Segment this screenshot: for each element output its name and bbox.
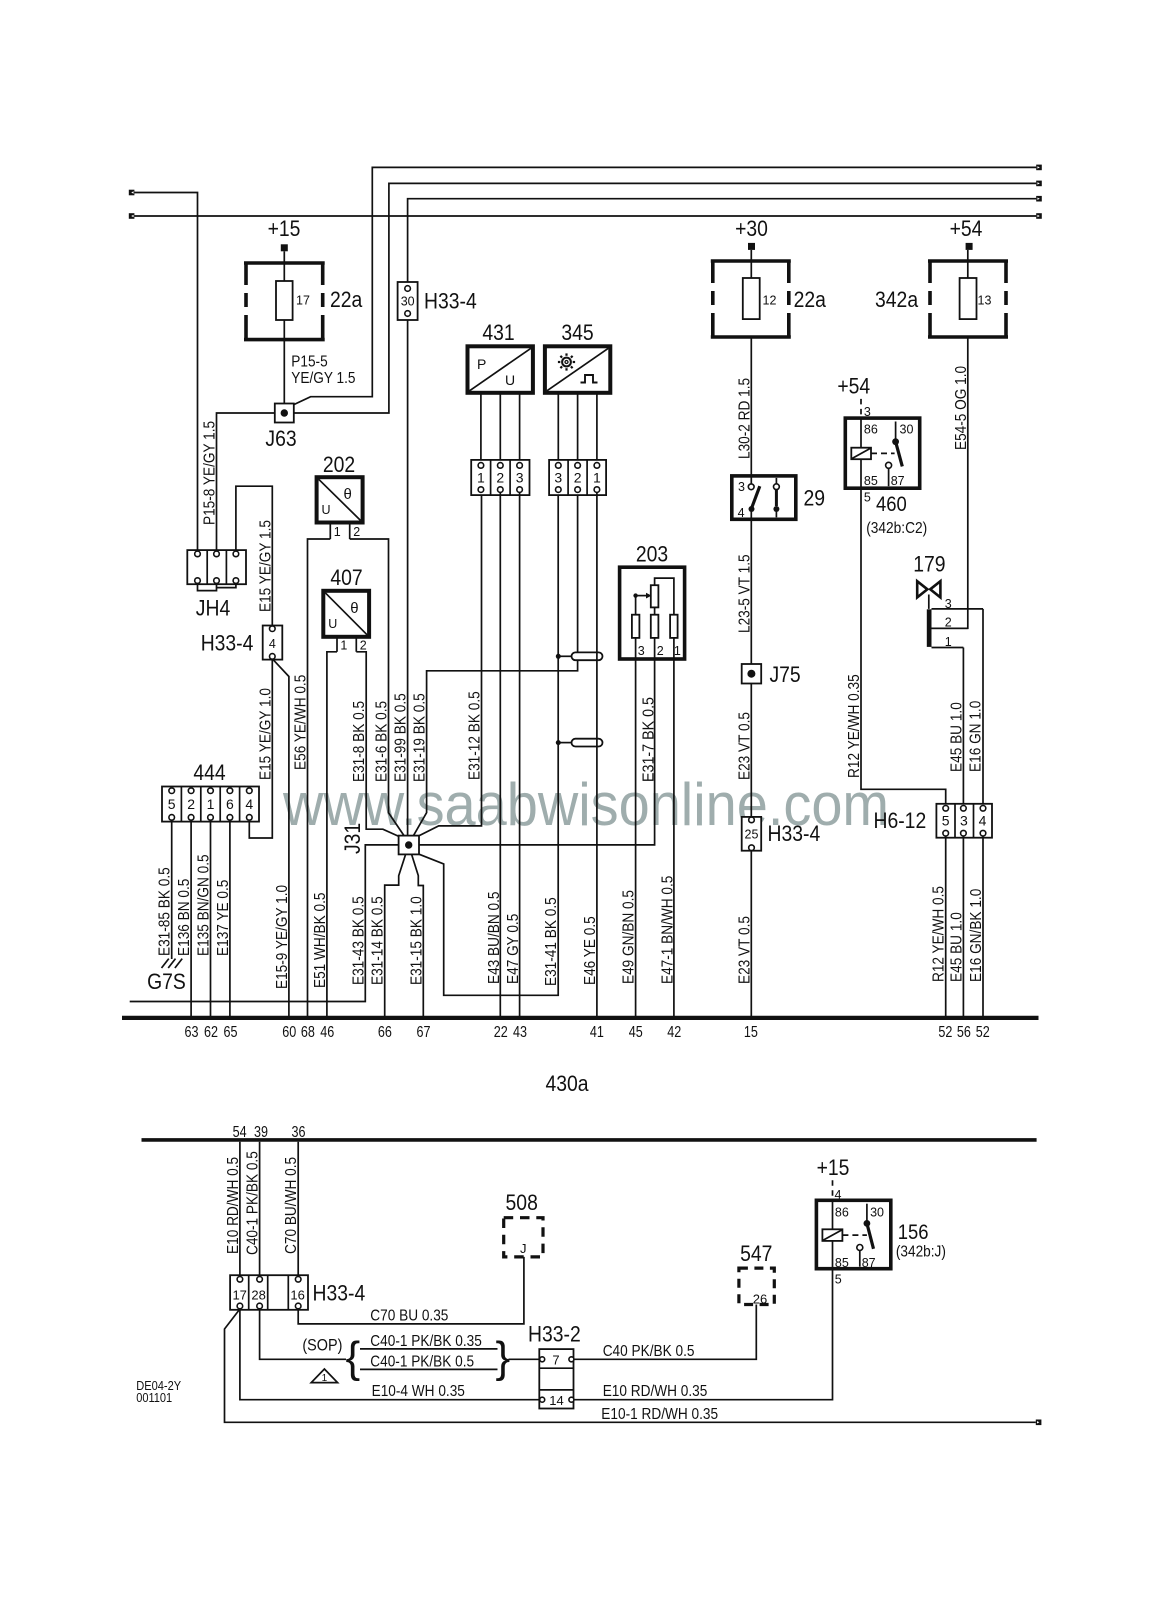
svg-text:43: 43	[513, 1024, 527, 1041]
junction J63	[275, 404, 294, 423]
svg-text:E46 YE 0.5: E46 YE 0.5	[582, 916, 599, 985]
switch 29	[732, 476, 796, 520]
svg-text:17: 17	[232, 1288, 246, 1303]
svg-text:H6-12: H6-12	[874, 808, 927, 833]
wire R12 H6-12 pin5 to bus 52	[945, 836, 947, 1016]
svg-text:J63: J63	[265, 426, 296, 451]
svg-text:}: }	[496, 1333, 511, 1382]
wire +15 to relay 22a	[283, 251, 285, 281]
wire E56 202 pin1 to bus 68	[308, 539, 331, 1016]
svg-text:J: J	[520, 1241, 527, 1256]
wire: line y=198.7 to H33-4 pin30	[408, 199, 1037, 286]
svg-text:45: 45	[629, 1024, 643, 1041]
svg-text:1: 1	[334, 525, 341, 539]
svg-text:E31-15 BK 1.0: E31-15 BK 1.0	[408, 896, 425, 985]
svg-text:547: 547	[740, 1241, 772, 1266]
svg-text:5: 5	[942, 813, 950, 829]
terminal square right 1	[1036, 165, 1042, 171]
svg-text:U: U	[505, 372, 515, 388]
wire E43 431 pin2 to bus 22	[499, 492, 501, 1016]
svg-text:+15: +15	[817, 1155, 850, 1180]
wire P15-5 relay to J63	[283, 320, 285, 404]
svg-text:65: 65	[224, 1024, 238, 1041]
relay 156	[816, 1200, 890, 1270]
wire E31-6 202 pin2 to J31	[350, 539, 404, 836]
wire E23 H33-4 pin25 to bus 15	[750, 851, 752, 1016]
bus2 tick numbers	[233, 1124, 306, 1141]
svg-text:E31-19 BK 0.5: E31-19 BK 0.5	[412, 693, 429, 782]
wire L30-2 relay to switch 29	[750, 337, 752, 476]
svg-text:E31-8 BK 0.5: E31-8 BK 0.5	[351, 701, 368, 782]
svg-text:508: 508	[506, 1190, 538, 1215]
svg-text:2: 2	[360, 639, 367, 653]
svg-text:52: 52	[938, 1024, 952, 1041]
svg-text:14: 14	[549, 1393, 563, 1408]
svg-text:1: 1	[340, 639, 347, 653]
345 wires to connector	[557, 393, 559, 463]
valve 179	[917, 581, 940, 609]
svg-text:H33-2: H33-2	[528, 1322, 581, 1347]
svg-text:E15 YE/GY 1.5: E15 YE/GY 1.5	[257, 520, 274, 612]
ground G7S	[162, 959, 183, 968]
svg-text:54: 54	[233, 1124, 247, 1141]
svg-text:R12 YE/WH 0.35: R12 YE/WH 0.35	[846, 674, 863, 778]
svg-text:3: 3	[960, 813, 968, 829]
terminal square left 2	[129, 213, 135, 219]
svg-text:E31-12 BK 0.5: E31-12 BK 0.5	[467, 691, 484, 780]
svg-text:1: 1	[593, 470, 601, 486]
wire E47 431 pin3 to bus 43	[519, 492, 521, 1016]
connector H33-4 bottom	[230, 1275, 308, 1310]
wire: line y=183.4 from J63 right	[294, 183, 1036, 413]
wire E46 345 pin1 to bus 41	[596, 492, 598, 1016]
svg-text:5: 5	[168, 796, 176, 812]
wire E10 bus 54 to H33-4 pin17	[239, 1142, 241, 1277]
svg-text:39: 39	[254, 1124, 268, 1141]
wire E10 H33-2 pin14 to relay 156	[574, 1269, 833, 1400]
svg-text:13: 13	[978, 294, 992, 308]
svg-text:(342b:J): (342b:J)	[896, 1244, 946, 1261]
svg-text:E31-6 BK 0.5: E31-6 BK 0.5	[374, 701, 391, 782]
connector 508 dashed	[504, 1218, 543, 1257]
svg-text:P: P	[477, 356, 486, 372]
svg-text:407: 407	[330, 565, 362, 590]
wire: line y=167.4 from J63 riser	[294, 167, 1036, 404]
wire E16 GN 179 pin3 to H6-12 pin4	[982, 609, 984, 806]
svg-text:E10 RD/WH 0.5: E10 RD/WH 0.5	[225, 1157, 242, 1254]
svg-text:431: 431	[482, 320, 514, 345]
svg-text:430a: 430a	[545, 1071, 589, 1096]
svg-text:P15-8 YE/GY 1.5: P15-8 YE/GY 1.5	[202, 421, 219, 525]
wire E54-5 relay 342a to valve 179 pin2	[932, 337, 968, 628]
wire E15 bridge JH4 pin3 to H33-4 pin4	[236, 486, 272, 626]
svg-text:H33-4: H33-4	[768, 821, 821, 846]
svg-text:22: 22	[494, 1024, 508, 1041]
wire: full-width line y=216	[134, 215, 1036, 217]
179 connector bar	[927, 597, 983, 649]
svg-text:C70 BU/WH 0.5: C70 BU/WH 0.5	[283, 1157, 300, 1254]
wire 444 pin5 to ground	[171, 820, 173, 959]
sensor 431	[468, 346, 533, 393]
bus bar 430a	[122, 1016, 1039, 1020]
svg-text:E16 GN 1.0: E16 GN 1.0	[968, 700, 985, 772]
wire C40-1 bus 39 to H33-4 pin28	[259, 1142, 261, 1277]
svg-text:C40-1 PK/BK 0.5: C40-1 PK/BK 0.5	[370, 1353, 474, 1370]
svg-text:E137 YE 0.5: E137 YE 0.5	[215, 880, 232, 956]
svg-text:86: 86	[835, 1206, 849, 1220]
svg-text:H33-4: H33-4	[424, 289, 477, 314]
wire E31-15 J31 to bus 67	[412, 854, 424, 1016]
svg-text:4: 4	[738, 506, 745, 520]
svg-text:1: 1	[322, 1373, 328, 1384]
svg-text:12: 12	[763, 294, 777, 308]
svg-text:(342b:C2): (342b:C2)	[866, 520, 927, 537]
svg-text:4: 4	[245, 796, 253, 812]
svg-text:26: 26	[753, 1292, 767, 1307]
svg-text:30: 30	[900, 423, 914, 437]
407 pin stubs	[336, 637, 338, 652]
wire E51 407 pin1 to bus 46	[327, 652, 337, 1016]
wire E31-41 J31 to 345 pin3	[419, 492, 558, 995]
svg-text:22a: 22a	[794, 287, 827, 312]
connector H33-4 pin 4	[263, 626, 283, 660]
svg-text:3: 3	[738, 480, 745, 494]
svg-text:2: 2	[496, 470, 504, 486]
wire E16 H6-12 pin4 to bus 52b	[982, 836, 984, 1016]
svg-text:E49 GN/BN 0.5: E49 GN/BN 0.5	[621, 890, 638, 984]
wire: left line y=192.5 to JH4 pin1	[134, 193, 197, 552]
svg-text:60: 60	[282, 1024, 296, 1041]
svg-text:L30-2 RD 1.5: L30-2 RD 1.5	[736, 378, 753, 459]
wire C40 H33-2 pin7 to 547	[574, 1305, 756, 1360]
svg-text:+30: +30	[735, 216, 768, 241]
connector H33-4 pin 30	[398, 282, 418, 320]
sensor 345	[545, 346, 610, 393]
wire E23 J75 to H33-4 pin25	[750, 684, 752, 818]
svg-text:6: 6	[226, 796, 234, 812]
svg-text:E31-7 BK 0.5: E31-7 BK 0.5	[641, 697, 658, 782]
svg-text:(SOP): (SOP)	[302, 1336, 342, 1355]
svg-text:E31-85 BK 0.5: E31-85 BK 0.5	[157, 867, 174, 956]
wire E49 203 pin3 to bus 45	[635, 659, 637, 1016]
svg-text:7: 7	[552, 1353, 559, 1368]
wire E31-12 431 pin1 to J31	[419, 492, 482, 836]
svg-text:85: 85	[835, 1256, 849, 1270]
svg-text:342a: 342a	[875, 287, 919, 312]
wire E31-7 203 pin2 to J31	[419, 659, 655, 845]
svg-text:J75: J75	[770, 662, 801, 687]
wire C70 bus 36 to H33-4 pin16	[297, 1142, 299, 1277]
svg-text:E47 GY 0.5: E47 GY 0.5	[505, 914, 522, 984]
svg-text:3: 3	[945, 597, 952, 611]
svg-text:46: 46	[320, 1024, 334, 1041]
wire E47-1 203 pin1 to bus 42	[673, 659, 675, 1016]
svg-text:3: 3	[638, 644, 645, 658]
svg-text:E45 BU 1.0: E45 BU 1.0	[949, 912, 966, 982]
JH4 bottom links	[198, 583, 217, 590]
connector H33-4 pin 25	[742, 817, 762, 851]
bus bar 2	[142, 1138, 1037, 1142]
svg-text:θ: θ	[350, 600, 358, 617]
svg-text:E45 BU 1.0: E45 BU 1.0	[948, 702, 965, 772]
relay 22a fuse 12	[711, 261, 791, 337]
svg-text:30: 30	[870, 1206, 884, 1220]
svg-text:66: 66	[378, 1024, 392, 1041]
svg-text:68: 68	[301, 1024, 315, 1041]
connector 547 dashed	[739, 1268, 774, 1304]
svg-text:E56 YE/WH 0.5: E56 YE/WH 0.5	[293, 675, 310, 770]
svg-text:62: 62	[204, 1024, 218, 1041]
svg-text:E47-1 BN/WH 0.5: E47-1 BN/WH 0.5	[659, 876, 676, 984]
wire E136 444 pin2 to bus 63	[190, 820, 192, 1016]
svg-text:1: 1	[477, 470, 485, 486]
shield loop symbol upper	[556, 652, 603, 660]
svg-text:460: 460	[876, 493, 907, 516]
shield loop symbol lower	[556, 739, 603, 747]
svg-text:4: 4	[979, 813, 987, 829]
svg-text:E135 BN/GN 0.5: E135 BN/GN 0.5	[196, 854, 213, 956]
svg-text:25: 25	[745, 828, 759, 842]
connector 444	[162, 787, 259, 822]
svg-text:4: 4	[269, 637, 276, 651]
wire E31-8 407 pin2 to J31	[356, 652, 399, 837]
svg-text:E23 VT 0.5: E23 VT 0.5	[736, 712, 753, 780]
svg-text:H33-4: H33-4	[313, 1281, 366, 1306]
svg-text:202: 202	[323, 452, 355, 477]
202 pin stubs	[329, 523, 331, 540]
svg-text:56: 56	[957, 1024, 971, 1041]
relay 342a fuse 13	[928, 261, 1008, 337]
svg-text:E16 GN/BK 1.0: E16 GN/BK 1.0	[968, 888, 985, 982]
svg-text:42: 42	[667, 1024, 681, 1041]
svg-text:C70 BU 0.35: C70 BU 0.35	[370, 1307, 448, 1324]
svg-text:28: 28	[251, 1288, 265, 1303]
svg-text:2: 2	[657, 644, 664, 658]
svg-text:63: 63	[185, 1024, 199, 1041]
wire E10-1 H33-4 pin17 to terminal	[225, 1309, 1036, 1422]
wire +30 to relay	[750, 250, 752, 278]
wire R12 460 pin5 to H6-12 pin5	[861, 488, 946, 805]
svg-text:E10-4 WH 0.35: E10-4 WH 0.35	[372, 1383, 465, 1400]
connector H33-2	[539, 1349, 574, 1408]
svg-text:345: 345	[561, 320, 593, 345]
wire E15 H33-4 pin4 down to 444 pin4	[249, 660, 272, 838]
svg-text:{: {	[346, 1333, 361, 1382]
svg-text:E23 VT 0.5: E23 VT 0.5	[736, 916, 753, 984]
svg-text:1: 1	[674, 644, 681, 658]
wire E31-43 J31 to left rail	[130, 845, 399, 1002]
svg-text:U: U	[328, 617, 337, 631]
wire E135 444 pin1 to bus 62	[210, 820, 212, 1016]
wire: E31-99 from H33-4 pin30 down to J31	[407, 316, 409, 836]
connector 345 strip	[549, 460, 606, 495]
bus tick numbers	[185, 1024, 990, 1041]
sensor 407	[323, 591, 369, 637]
wire E45 H6-12 pin3 to bus 56	[962, 836, 964, 1016]
svg-text:P15-5: P15-5	[291, 354, 327, 371]
svg-text:θ: θ	[344, 486, 352, 503]
431 wires to connector	[480, 393, 482, 463]
svg-text:E136 BN 0.5: E136 BN 0.5	[176, 879, 193, 956]
sensor 202	[317, 477, 363, 522]
svg-text:E31-43 BK 0.5: E31-43 BK 0.5	[350, 896, 367, 985]
svg-text:156: 156	[898, 1221, 929, 1244]
svg-text:86: 86	[864, 423, 878, 437]
svg-text:G7S: G7S	[147, 969, 186, 994]
warning triangle 1	[311, 1369, 337, 1384]
svg-text:C40-1 PK/BK 0.35: C40-1 PK/BK 0.35	[370, 1333, 482, 1350]
terminal square right 4	[1036, 213, 1042, 219]
svg-text:179: 179	[913, 551, 945, 576]
svg-text:17: 17	[296, 294, 310, 308]
svg-text:L23-5 VT 1.5: L23-5 VT 1.5	[736, 554, 753, 633]
svg-text:2: 2	[945, 616, 952, 630]
svg-text:U: U	[322, 503, 331, 517]
wire E45 BU 179 pin1 to H6-12 pin3	[962, 648, 964, 806]
connector JH4	[187, 550, 246, 584]
wire E31-19 345 pin2 to J31	[414, 492, 578, 835]
svg-text:16: 16	[290, 1288, 304, 1303]
svg-text:203: 203	[636, 542, 668, 567]
svg-text:2: 2	[353, 525, 360, 539]
junction J31	[399, 836, 419, 855]
wire J63 left to JH4 pin2	[217, 413, 275, 552]
svg-text:1: 1	[207, 796, 215, 812]
svg-text:001101: 001101	[136, 1391, 172, 1405]
svg-text:36: 36	[292, 1124, 306, 1141]
relay 460	[845, 418, 919, 488]
svg-text:2: 2	[187, 796, 195, 812]
svg-text:E15-9 YE/GY 1.0: E15-9 YE/GY 1.0	[274, 885, 291, 989]
terminal square right 2	[1036, 181, 1042, 187]
svg-text:C40-1 PK/BK 0.5: C40-1 PK/BK 0.5	[245, 1151, 262, 1255]
svg-text:E43 BU/BN 0.5: E43 BU/BN 0.5	[486, 892, 503, 985]
svg-text:1: 1	[945, 635, 952, 649]
svg-text:+15: +15	[268, 216, 301, 241]
wire E10-4 H33-4 pin17 to H33-2 pin14	[240, 1309, 540, 1400]
svg-text:+54: +54	[837, 374, 870, 399]
svg-text:E31-99 BK 0.5: E31-99 BK 0.5	[393, 693, 410, 782]
svg-text:87: 87	[862, 1256, 876, 1270]
terminal square left 1	[129, 190, 135, 196]
svg-text:5: 5	[864, 491, 871, 505]
svg-text:85: 85	[864, 474, 878, 488]
dashed wire +15 to 156	[832, 1180, 834, 1200]
dashed wire +54 to 460	[860, 399, 862, 418]
svg-text:15: 15	[744, 1024, 758, 1041]
relay 22a fuse 17	[244, 263, 325, 340]
svg-text:JH4: JH4	[196, 596, 230, 621]
svg-text:+54: +54	[950, 216, 983, 241]
wire E31-14 J31 to bus 66	[385, 854, 406, 1016]
wire H33-4 pin28 to brace	[260, 1309, 346, 1360]
wire E137 444 pin6 to bus 65	[229, 820, 231, 1016]
svg-text:E10-1 RD/WH 0.35: E10-1 RD/WH 0.35	[601, 1406, 718, 1423]
svg-text:R12 YE/WH 0.5: R12 YE/WH 0.5	[931, 886, 948, 982]
svg-text:E15 YE/GY 1.0: E15 YE/GY 1.0	[257, 688, 274, 780]
svg-text:5: 5	[835, 1273, 842, 1287]
wire E15-9 H33-4 pin4 to bus 60	[273, 659, 289, 1016]
junction J75	[742, 664, 762, 684]
svg-text:C40 PK/BK 0.5: C40 PK/BK 0.5	[603, 1343, 695, 1360]
svg-text:29: 29	[804, 486, 826, 511]
connector H6-12	[936, 804, 992, 838]
terminal square right 3	[1036, 196, 1042, 202]
component 203	[620, 567, 685, 659]
svg-text:22a: 22a	[330, 287, 363, 312]
svg-text:3: 3	[516, 470, 524, 486]
wire brace to H33-2 pin7	[509, 1358, 540, 1360]
svg-text:3: 3	[554, 470, 562, 486]
connector 431 strip	[471, 460, 529, 495]
svg-text:J31: J31	[340, 823, 365, 854]
wire L23-5 switch to J75	[750, 519, 752, 664]
svg-text:E31-41 BK 0.5: E31-41 BK 0.5	[543, 897, 560, 986]
svg-text:41: 41	[590, 1024, 604, 1041]
svg-text:87: 87	[891, 474, 905, 488]
svg-text:E54-5 OG 1.0: E54-5 OG 1.0	[953, 366, 970, 450]
svg-text:67: 67	[417, 1024, 431, 1041]
terminal square E10-1	[1036, 1420, 1042, 1426]
wire +54 to relay 342a	[967, 250, 969, 278]
svg-text:444: 444	[193, 760, 225, 785]
svg-text:H33-4: H33-4	[201, 631, 254, 656]
svg-text:E51 WH/BK 0.5: E51 WH/BK 0.5	[312, 893, 329, 989]
svg-text:E10 RD/WH 0.35: E10 RD/WH 0.35	[603, 1383, 708, 1400]
svg-text:30: 30	[401, 295, 415, 309]
svg-text:E31-14 BK 0.5: E31-14 BK 0.5	[370, 896, 387, 985]
svg-text:YE/GY 1.5: YE/GY 1.5	[291, 370, 355, 387]
svg-text:52: 52	[976, 1024, 990, 1041]
wire C70 BU H33-4 pin16 to 508	[298, 1257, 524, 1324]
svg-text:2: 2	[574, 470, 582, 486]
